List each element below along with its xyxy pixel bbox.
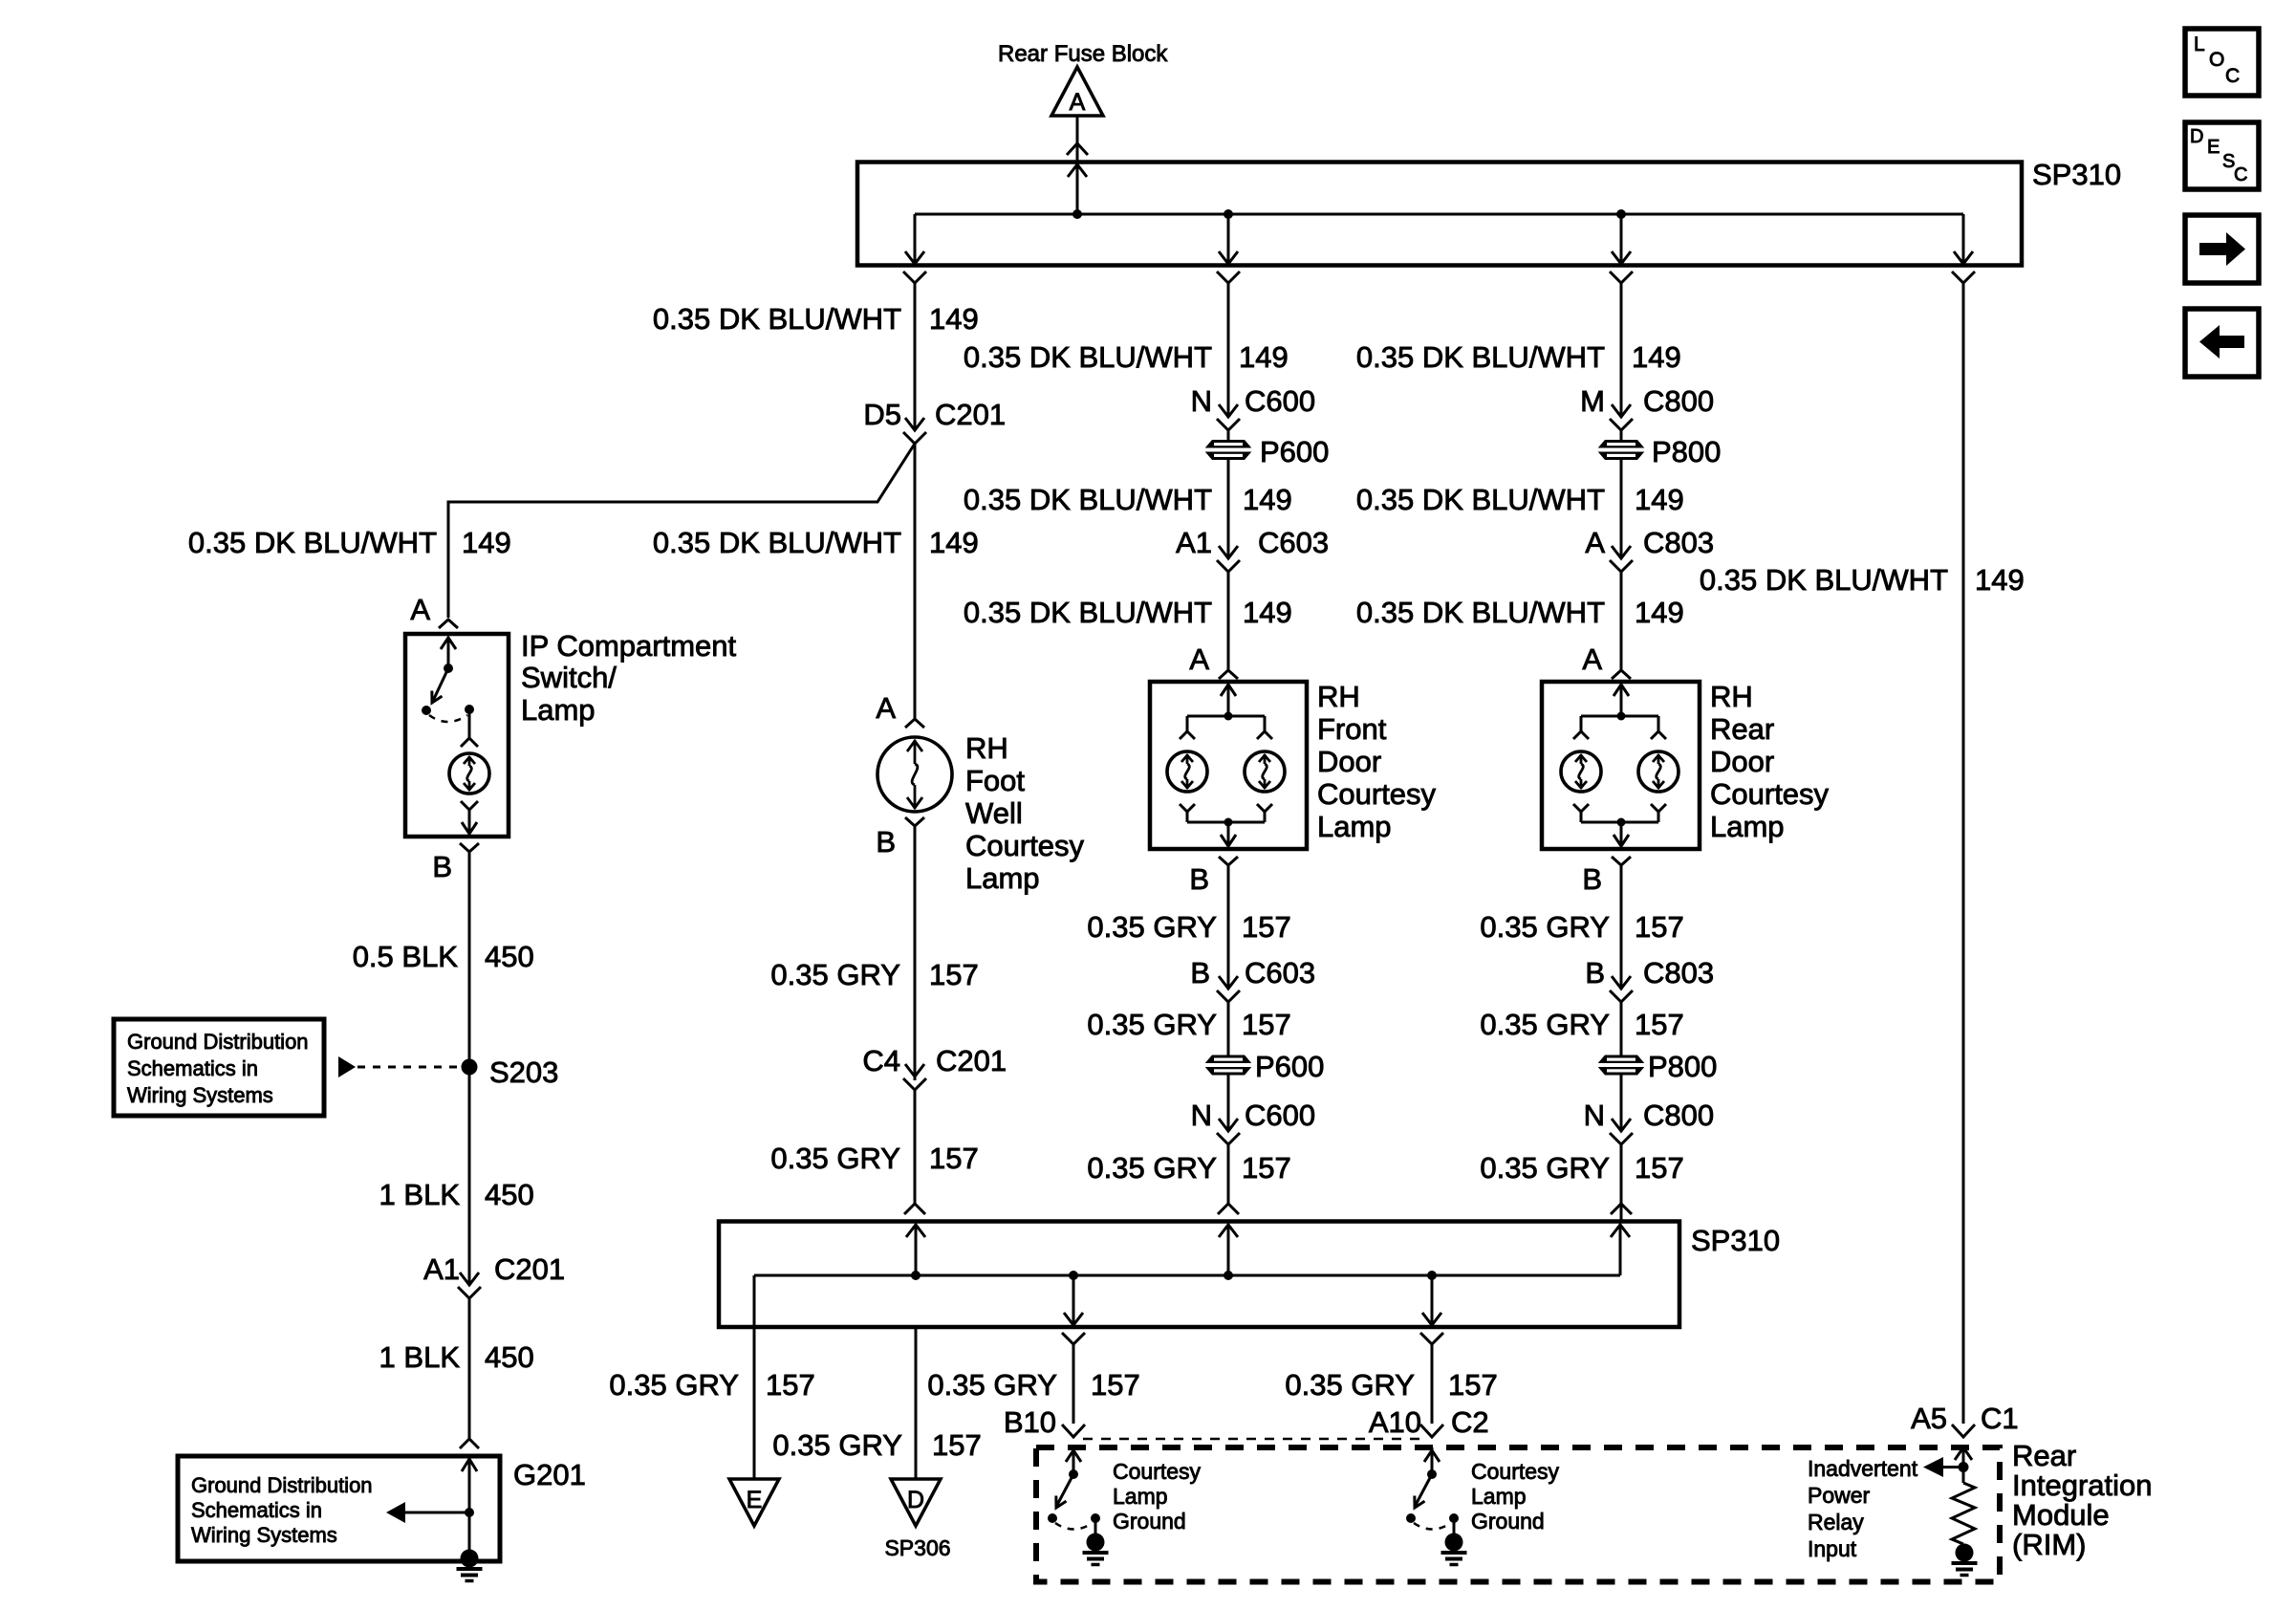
label RH Rear Door Courtesy Lamp <box>1710 680 1830 843</box>
svg-text:L: L <box>2194 33 2205 55</box>
svg-text:IP Compartment: IP Compartment <box>521 629 737 663</box>
IP Compartment Switch/Lamp box <box>405 634 509 837</box>
svg-text:C603: C603 <box>1245 956 1315 990</box>
svg-text:0.35 DK BLU/WHT: 0.35 DK BLU/WHT <box>964 340 1212 374</box>
IP lamp lower terminal and exit arrow <box>461 801 478 834</box>
svg-text:1 BLK: 1 BLK <box>379 1340 461 1374</box>
connector C4 C201 <box>862 1044 1007 1090</box>
svg-text:A: A <box>1585 526 1605 559</box>
label Courtesy Lamp Ground (A10) <box>1471 1459 1560 1534</box>
rear door lamp internal return <box>1573 804 1666 846</box>
svg-text:0.35 DK BLU/WHT: 0.35 DK BLU/WHT <box>653 302 901 336</box>
svg-text:C201: C201 <box>494 1252 565 1286</box>
grommet P800 (upper) <box>1596 435 1721 468</box>
svg-text:0.35 DK BLU/WHT: 0.35 DK BLU/WHT <box>188 526 437 559</box>
connector A C803 <box>1585 526 1714 572</box>
svg-text:B: B <box>1189 862 1209 896</box>
svg-text:Ground Distribution: Ground Distribution <box>191 1473 373 1497</box>
RIM input wire from A5 <box>1955 1447 1972 1483</box>
ground (RIM resistor) <box>1956 1544 1974 1562</box>
ground G201 <box>461 1550 479 1568</box>
terminal B of IP switch <box>432 843 479 883</box>
svg-text:P800: P800 <box>1648 1050 1717 1083</box>
dashed leader line to S203 <box>357 1066 461 1069</box>
svg-text:0.35 GRY: 0.35 GRY <box>927 1368 1057 1402</box>
wire C800 to P800 <box>1620 430 1623 440</box>
junction node on bus (front door drop) <box>1224 209 1233 219</box>
svg-text:A: A <box>1189 642 1209 676</box>
bottom splice internal bus wire <box>754 1224 1620 1327</box>
svg-text:Schematics in: Schematics in <box>191 1498 322 1522</box>
connector M C800 (down) <box>1580 384 1714 430</box>
rear door lamp 2 <box>1638 751 1679 792</box>
svg-text:D: D <box>907 1487 924 1513</box>
wire splice to B10 <box>1072 1344 1075 1424</box>
wire B down to S203 <box>468 852 471 1067</box>
svg-text:0.35 GRY: 0.35 GRY <box>772 1428 902 1462</box>
wire P800 to C803 <box>1620 460 1623 543</box>
svg-text:149: 149 <box>1239 340 1289 374</box>
splice pack SP310 (bottom) box <box>719 1222 1679 1328</box>
switch contact and ground stem (B10) <box>1091 1513 1100 1536</box>
junction node (foot well) <box>911 1271 921 1280</box>
svg-text:Lamp: Lamp <box>1710 810 1785 843</box>
svg-text:157: 157 <box>1091 1368 1140 1402</box>
svg-text:0.35 DK BLU/WHT: 0.35 DK BLU/WHT <box>964 483 1212 516</box>
label RH Front Door Courtesy Lamp <box>1317 680 1437 843</box>
svg-text:RH: RH <box>1710 680 1753 713</box>
svg-text:Ground: Ground <box>1113 1509 1186 1534</box>
wire C603 to P600 (return) <box>1227 1002 1230 1055</box>
terminal chevron into bottom splice <box>904 1204 925 1214</box>
svg-text:157: 157 <box>929 958 979 991</box>
svg-text:157: 157 <box>1242 1008 1291 1041</box>
svg-text:157: 157 <box>929 1142 979 1175</box>
svg-text:C201: C201 <box>935 398 1006 431</box>
rear door lamp internal feed <box>1573 685 1666 739</box>
dashed throw arc (B10 switch) <box>1055 1523 1093 1530</box>
svg-text:Door: Door <box>1317 745 1381 778</box>
connector D5 C201 <box>863 398 1006 444</box>
svg-text:Wiring Systems: Wiring Systems <box>191 1523 337 1547</box>
courtesy lamp ground switch (A10) <box>1406 1447 1440 1523</box>
svg-text:B: B <box>1190 956 1210 990</box>
svg-text:Courtesy: Courtesy <box>1113 1459 1202 1484</box>
svg-text:Lamp: Lamp <box>1471 1484 1527 1509</box>
terminal B of foot well lamp <box>876 817 924 859</box>
svg-text:C800: C800 <box>1643 1099 1714 1132</box>
dashed throw arc of IP switch <box>429 715 467 722</box>
svg-text:SP306: SP306 <box>884 1535 950 1560</box>
wire splice to A10 C2 <box>1431 1344 1434 1424</box>
svg-text:0.35 GRY: 0.35 GRY <box>1480 910 1610 944</box>
front door lamp 1 <box>1167 751 1207 792</box>
svg-text:157: 157 <box>932 1428 982 1462</box>
LOC nav box <box>2185 29 2259 96</box>
ground (B10) <box>1087 1534 1105 1552</box>
RH Foot Well Courtesy Lamp <box>877 737 952 812</box>
arrow down (A10 drop) <box>1422 1313 1441 1325</box>
svg-text:C: C <box>2225 65 2240 87</box>
junction dot (relay input) <box>1959 1462 1969 1472</box>
svg-text:0.35 DK BLU/WHT: 0.35 DK BLU/WHT <box>1356 596 1605 629</box>
svg-text:149: 149 <box>462 526 511 559</box>
svg-text:Front: Front <box>1317 712 1387 746</box>
svg-text:149: 149 <box>1243 596 1292 629</box>
dashed connector seam between B10 and A10 <box>1083 1438 1422 1441</box>
svg-text:Lamp: Lamp <box>521 693 596 727</box>
svg-text:157: 157 <box>1448 1368 1498 1402</box>
wire C803 to P800 (return) <box>1620 1002 1623 1055</box>
terminal chevron at G201 box <box>460 1439 479 1448</box>
connector B C603 (return) <box>1190 956 1315 1002</box>
arrow down drop 2 inside splice box <box>1219 251 1238 264</box>
ground distribution reference box (G201) <box>178 1456 500 1561</box>
reference arrow (left) in G201 box <box>386 1502 469 1523</box>
svg-text:149: 149 <box>1635 483 1684 516</box>
arrow up (rear door entry) <box>1611 1225 1630 1237</box>
svg-text:Rear: Rear <box>1710 712 1774 746</box>
svg-text:Well: Well <box>965 796 1023 830</box>
grommet P800 (lower) <box>1596 1050 1717 1083</box>
terminal B of rear door lamp <box>1582 857 1631 896</box>
Rear Integration Module dashed outline <box>1036 1447 2000 1582</box>
svg-text:P600: P600 <box>1260 435 1329 468</box>
wire C600 down to bottom splice <box>1227 1144 1230 1204</box>
svg-text:0.35 DK BLU/WHT: 0.35 DK BLU/WHT <box>964 596 1212 629</box>
rear door lamp 1 <box>1561 751 1601 792</box>
wire C800 down to bottom splice <box>1620 1144 1623 1221</box>
courtesy lamp ground switch (B10) <box>1048 1447 1081 1523</box>
svg-text:149: 149 <box>929 302 979 336</box>
chevron below splice (B10) <box>1062 1333 1085 1344</box>
next arrow nav box <box>2185 215 2259 283</box>
svg-text:1 BLK: 1 BLK <box>379 1178 461 1211</box>
svg-text:Input: Input <box>1808 1536 1857 1561</box>
junction dot in G201 box <box>465 1508 474 1517</box>
svg-text:D: D <box>2190 126 2203 147</box>
svg-text:Rear: Rear <box>2012 1439 2076 1472</box>
svg-text:0.35 DK BLU/WHT: 0.35 DK BLU/WHT <box>1356 483 1605 516</box>
svg-text:Wiring Systems: Wiring Systems <box>127 1083 273 1107</box>
junction node (courtesy lamp ground A10) <box>1427 1271 1437 1280</box>
terminal B of front door lamp <box>1189 857 1238 896</box>
terminal A of front door lamp <box>1189 642 1238 679</box>
label IP Compartment Switch/Lamp <box>521 629 737 727</box>
svg-text:Lamp: Lamp <box>1317 810 1392 843</box>
wire C201 down to foot well lamp <box>914 444 917 719</box>
svg-text:C: C <box>2234 164 2247 185</box>
svg-text:0.35 DK BLU/WHT: 0.35 DK BLU/WHT <box>653 526 901 559</box>
wire P600 to C603 <box>1227 460 1230 543</box>
svg-text:Courtesy: Courtesy <box>965 829 1085 862</box>
svg-text:Courtesy: Courtesy <box>1471 1459 1560 1484</box>
connector N C600 (return) <box>1191 1099 1316 1144</box>
inadvertent power relay input arrow <box>1923 1457 1963 1477</box>
svg-text:149: 149 <box>1635 596 1684 629</box>
connector triangle D <box>891 1479 941 1526</box>
svg-text:C800: C800 <box>1643 384 1714 418</box>
svg-text:A1: A1 <box>1176 526 1212 559</box>
svg-text:0.35 GRY: 0.35 GRY <box>1285 1368 1415 1402</box>
svg-text:C600: C600 <box>1245 1099 1315 1132</box>
svg-text:0.5 BLK: 0.5 BLK <box>353 940 459 973</box>
svg-text:B: B <box>1582 862 1602 896</box>
svg-text:B: B <box>1585 956 1605 990</box>
svg-text:B: B <box>876 825 896 859</box>
svg-text:Module: Module <box>2012 1498 2110 1532</box>
svg-text:B10: B10 <box>1004 1405 1056 1439</box>
connector A5 C1 at RIM <box>1911 1402 2019 1437</box>
svg-text:0.35 GRY: 0.35 GRY <box>770 958 900 991</box>
svg-text:157: 157 <box>766 1368 815 1402</box>
svg-text:C1: C1 <box>1981 1402 2019 1435</box>
svg-text:Relay: Relay <box>1808 1510 1864 1534</box>
back arrow nav box <box>2185 309 2259 377</box>
resistor (pull-down) in RIM <box>1952 1483 1975 1544</box>
svg-text:Rear Fuse Block: Rear Fuse Block <box>998 41 1168 67</box>
svg-text:N: N <box>1584 1099 1605 1132</box>
svg-text:450: 450 <box>485 1178 534 1211</box>
svg-text:0.35 GRY: 0.35 GRY <box>609 1368 739 1402</box>
svg-text:0.35 DK BLU/WHT: 0.35 DK BLU/WHT <box>1700 563 1948 597</box>
svg-text:157: 157 <box>1242 1151 1291 1185</box>
front door lamp internal feed <box>1180 685 1272 739</box>
svg-text:Door: Door <box>1710 745 1774 778</box>
front door lamp 2 <box>1245 751 1285 792</box>
arrow up (front door entry) <box>1219 1225 1238 1237</box>
wire rear door B down to C803 <box>1620 865 1623 973</box>
label Rear Integration Module (RIM) <box>2012 1439 2153 1561</box>
chevron below splice (A10) <box>1420 1333 1443 1344</box>
terminal A of foot well lamp <box>876 691 924 728</box>
terminal chevron into bottom splice (col3) <box>1611 1204 1632 1214</box>
wire C803 down to rear door lamp <box>1620 572 1623 670</box>
reference arrow to S203 <box>338 1056 356 1077</box>
svg-text:S203: S203 <box>489 1055 558 1089</box>
connector triangle A to Rear Fuse Block <box>1051 67 1103 116</box>
svg-text:149: 149 <box>1243 483 1292 516</box>
junction node (front door) <box>1224 1271 1233 1280</box>
wire inside G201 box <box>462 1456 477 1558</box>
svg-text:0.35 GRY: 0.35 GRY <box>1087 910 1217 944</box>
RH Rear Door Courtesy Lamp box <box>1542 682 1700 849</box>
svg-text:450: 450 <box>485 940 534 973</box>
svg-text:RH: RH <box>1317 680 1360 713</box>
wire front door B down to C603 <box>1227 865 1230 973</box>
grommet P600 (lower) <box>1203 1050 1324 1083</box>
wire drop 1 from splice to connector C201 <box>914 283 917 415</box>
svg-text:O: O <box>2209 49 2224 71</box>
svg-text:P600: P600 <box>1255 1050 1324 1083</box>
svg-text:Switch/: Switch/ <box>521 661 617 694</box>
splice pack SP310 (top) box <box>857 163 2022 266</box>
junction node (courtesy lamp ground B10) <box>1069 1271 1078 1280</box>
connector A1 C201 (left column) <box>423 1252 565 1298</box>
wire C201 down to G201 <box>468 1298 471 1439</box>
svg-text:A5: A5 <box>1911 1402 1947 1435</box>
connector N C600 (down) <box>1191 384 1316 430</box>
svg-text:C803: C803 <box>1643 956 1714 990</box>
svg-text:450: 450 <box>485 1340 534 1374</box>
svg-text:Lamp: Lamp <box>1113 1484 1168 1509</box>
svg-text:C4: C4 <box>862 1044 900 1077</box>
label Courtesy Lamp Ground (B10) <box>1113 1459 1202 1534</box>
svg-text:Ground: Ground <box>1471 1509 1545 1534</box>
svg-text:157: 157 <box>1635 1008 1684 1041</box>
svg-text:(RIM): (RIM) <box>2012 1528 2086 1561</box>
label Ground Distribution Schematics in Wiring Systems (S203) <box>127 1030 309 1107</box>
ground (A10) <box>1445 1534 1463 1552</box>
switch contact and ground stem (A10) <box>1449 1513 1459 1536</box>
terminal A of rear door lamp <box>1582 642 1631 679</box>
svg-text:A1: A1 <box>423 1252 460 1286</box>
svg-text:Lamp: Lamp <box>965 861 1040 895</box>
DESC nav box <box>2185 122 2259 189</box>
SP310 internal bus wire <box>915 164 1963 264</box>
label RH Foot Well Courtesy Lamp <box>965 731 1085 895</box>
svg-text:A: A <box>1582 642 1602 676</box>
svg-text:P800: P800 <box>1652 435 1721 468</box>
wire C201 down to splice SP310 <box>914 1090 917 1204</box>
connector chevrons below splice box <box>903 272 1975 283</box>
wire drop 4 from splice down to RIM <box>1962 283 1965 1424</box>
svg-text:C2: C2 <box>1451 1405 1489 1439</box>
svg-text:SP310: SP310 <box>2032 158 2121 191</box>
svg-text:157: 157 <box>1635 910 1684 944</box>
arrow down (B10 drop) <box>1064 1313 1083 1325</box>
connector triangle E <box>729 1479 779 1526</box>
wire C603 down to front door lamp <box>1227 572 1230 670</box>
front door lamp internal return <box>1180 804 1272 846</box>
svg-text:N: N <box>1191 384 1212 418</box>
svg-text:C603: C603 <box>1258 526 1329 559</box>
wire P800 to C800 (return) <box>1620 1075 1623 1116</box>
svg-text:E: E <box>747 1487 763 1513</box>
svg-text:SP310: SP310 <box>1691 1224 1780 1257</box>
svg-text:157: 157 <box>1242 910 1291 944</box>
switch arm inside IP box <box>422 637 456 715</box>
wire splice to triangle E <box>753 1327 756 1479</box>
svg-text:B: B <box>432 850 452 883</box>
svg-text:Courtesy: Courtesy <box>1317 777 1437 811</box>
wire drop 3 from splice to C800 <box>1620 283 1623 402</box>
terminal A of IP switch <box>410 593 458 628</box>
arrow up (foot well entry) <box>906 1225 925 1237</box>
wire C600 to P600 <box>1227 430 1230 440</box>
svg-text:0.35 GRY: 0.35 GRY <box>1087 1151 1217 1185</box>
label Ground Distribution Schematics in Wiring Systems (G201) <box>191 1473 373 1547</box>
svg-text:A10: A10 <box>1369 1405 1421 1439</box>
svg-text:Ground Distribution: Ground Distribution <box>127 1030 309 1054</box>
splice S203 <box>462 1055 559 1089</box>
svg-text:Foot: Foot <box>965 764 1025 797</box>
arrow up to fuse block inside splice box <box>1068 164 1087 177</box>
svg-text:D5: D5 <box>863 398 901 431</box>
svg-text:C803: C803 <box>1643 526 1714 559</box>
wire from triangle A down to splice pack <box>1067 116 1088 161</box>
svg-text:E: E <box>2207 137 2220 158</box>
junction node on bus (rear door drop) <box>1616 209 1626 219</box>
wire from C201 splitting to IP switch (left) <box>448 444 915 618</box>
wire from contact to IP lamp <box>461 709 478 747</box>
arrow down drop 4 inside splice box <box>1954 251 1973 264</box>
svg-text:149: 149 <box>1975 563 2025 597</box>
svg-text:N: N <box>1191 1099 1212 1132</box>
svg-text:0.35 GRY: 0.35 GRY <box>770 1142 900 1175</box>
svg-text:A: A <box>876 691 896 725</box>
svg-text:0.35 GRY: 0.35 GRY <box>1480 1008 1610 1041</box>
grommet P600 (upper) <box>1203 435 1329 468</box>
arrow down drop 1 inside splice box <box>905 251 924 264</box>
wire P600 to C600 (return) <box>1227 1075 1230 1116</box>
connector A1 C603 <box>1176 526 1329 572</box>
wire drop 2 from splice to C600 <box>1227 283 1230 402</box>
ground distribution reference box (S203) <box>114 1019 324 1116</box>
svg-text:Schematics in: Schematics in <box>127 1056 258 1080</box>
svg-text:C201: C201 <box>936 1044 1007 1077</box>
svg-text:157: 157 <box>1635 1151 1684 1185</box>
svg-text:A: A <box>1070 89 1086 116</box>
IP lamp <box>449 753 489 794</box>
svg-text:Inadvertent: Inadvertent <box>1808 1456 1918 1481</box>
svg-text:G201: G201 <box>513 1458 586 1491</box>
wire splice to triangle D <box>915 1327 918 1479</box>
connector B C803 (return) <box>1585 956 1714 1002</box>
connector N C800 (return) <box>1584 1099 1715 1144</box>
svg-text:0.35 DK BLU/WHT: 0.35 DK BLU/WHT <box>1356 340 1605 374</box>
svg-text:RH: RH <box>965 731 1008 765</box>
svg-text:Integration: Integration <box>2012 1469 2153 1502</box>
svg-text:149: 149 <box>1632 340 1681 374</box>
svg-text:Power: Power <box>1808 1483 1871 1508</box>
svg-text:149: 149 <box>929 526 979 559</box>
svg-text:0.35 GRY: 0.35 GRY <box>1480 1151 1610 1185</box>
terminal B10 <box>1004 1405 1085 1439</box>
svg-text:Courtesy: Courtesy <box>1710 777 1830 811</box>
junction node on bus (feed to fuse block) <box>1072 209 1082 219</box>
svg-text:M: M <box>1580 384 1605 418</box>
label Inadvertent Power Relay Input <box>1808 1456 1918 1561</box>
svg-text:A: A <box>410 593 430 626</box>
switch contact dot <box>465 705 474 714</box>
terminal chevron into bottom splice (col2) <box>1218 1204 1239 1214</box>
wire S203 down to C201 <box>468 1067 471 1281</box>
svg-text:C600: C600 <box>1245 384 1315 418</box>
wire foot well B down to C201 (C4) <box>914 826 917 1080</box>
connector A10 C2 <box>1369 1405 1489 1439</box>
svg-text:0.35 GRY: 0.35 GRY <box>1087 1008 1217 1041</box>
RH Front Door Courtesy Lamp box <box>1150 682 1307 849</box>
dashed throw arc (A10 switch) <box>1414 1523 1451 1530</box>
arrow down drop 3 inside splice box <box>1612 251 1631 264</box>
